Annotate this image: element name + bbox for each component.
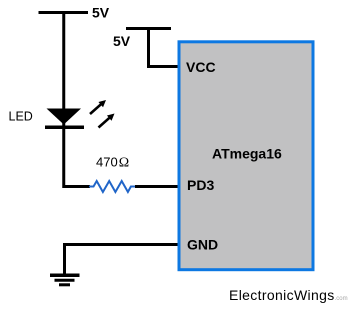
LED D1 cathode bar — [45, 126, 84, 130]
LED light arrow lower — [99, 114, 115, 128]
svg-text:PD3: PD3 — [187, 177, 214, 193]
LED light arrow upper — [90, 100, 106, 114]
power rail bar 5V (LED supply) — [39, 11, 89, 14]
svg-text:LED: LED — [9, 110, 33, 124]
svg-text:470Ω: 470Ω — [96, 155, 129, 171]
svg-text:ATmega16: ATmega16 — [212, 146, 282, 162]
power rail bar 5V (VCC supply) — [126, 27, 171, 30]
svg-text:5V: 5V — [113, 33, 131, 49]
wire: 5V rail down through LED to resistor elbow — [64, 13, 90, 187]
wire: resistor to PD3 pin — [135, 185, 181, 188]
resistor R1 470 ohm (blue zigzag) — [89, 181, 135, 192]
svg-text:GND: GND — [187, 237, 218, 253]
svg-text:VCC: VCC — [186, 59, 216, 75]
svg-text:ElectronicWings.com: ElectronicWings.com — [229, 287, 348, 303]
ground symbol — [50, 275, 80, 285]
svg-text:5V: 5V — [92, 5, 110, 21]
LED D1 anode triangle — [47, 109, 82, 125]
wire: 5V rail to VCC pin — [149, 29, 182, 67]
wire: GND pin to ground symbol — [65, 245, 182, 276]
IC U1 ATmega16 body — [179, 42, 313, 270]
